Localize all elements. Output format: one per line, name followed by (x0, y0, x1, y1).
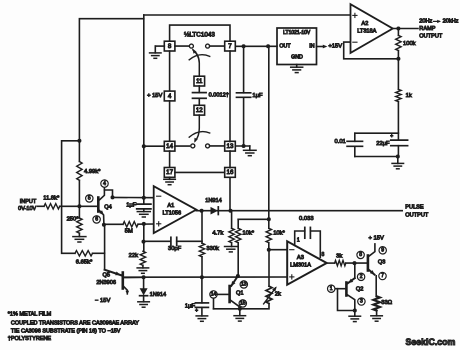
svg-text:17: 17 (166, 169, 173, 176)
svg-text:14: 14 (211, 292, 217, 298)
svg-text:8: 8 (168, 43, 172, 50)
svg-text:4: 4 (103, 181, 106, 187)
svg-text:3: 3 (360, 299, 363, 305)
svg-text:22μF: 22μF (376, 141, 390, 147)
svg-text:0V-10V: 0V-10V (18, 206, 36, 212)
svg-text:Q5: Q5 (103, 273, 110, 279)
svg-text:*1% METAL FILM: *1% METAL FILM (8, 311, 52, 317)
svg-text:OUTPUT: OUTPUT (405, 213, 429, 219)
svg-text:250*: 250* (67, 217, 80, 223)
svg-text:SeekIC.com: SeekIC.com (406, 337, 456, 347)
svg-text:14: 14 (166, 143, 173, 150)
svg-text:20kHz: 20kHz (443, 18, 459, 24)
svg-text:30pF: 30pF (168, 246, 182, 252)
svg-text:INPUT: INPUT (20, 199, 37, 205)
svg-text:Q1: Q1 (236, 290, 243, 296)
svg-text:LM301A: LM301A (290, 263, 311, 269)
svg-text:5: 5 (88, 196, 91, 202)
svg-text:9: 9 (381, 248, 384, 254)
svg-text:+ 15V: + 15V (369, 236, 384, 242)
svg-text:+15V: +15V (328, 44, 342, 50)
svg-text:330k: 330k (206, 246, 219, 252)
svg-text:1μF: 1μF (252, 93, 263, 99)
svg-text:RAMP: RAMP (419, 26, 435, 32)
svg-text:2: 2 (360, 274, 363, 280)
svg-text:PULSE: PULSE (405, 205, 424, 211)
svg-text:0.01: 0.01 (335, 139, 346, 145)
svg-text:7: 7 (381, 273, 384, 279)
svg-text:5M: 5M (125, 229, 133, 235)
svg-text:6.65k*: 6.65k* (76, 259, 93, 265)
svg-text:TIE CA3096 SUBSTRATE (PIN 16): TIE CA3096 SUBSTRATE (PIN 16) TO −15V (11, 329, 121, 335)
svg-text:1: 1 (330, 286, 333, 292)
svg-text:GND: GND (291, 55, 303, 61)
svg-text:LT318A: LT318A (357, 29, 376, 35)
svg-text:4: 4 (168, 93, 172, 100)
svg-text:A1: A1 (167, 203, 174, 209)
svg-text:1N914: 1N914 (205, 198, 221, 204)
svg-text:1N914: 1N914 (150, 292, 166, 298)
svg-text:Q3: Q3 (378, 259, 385, 265)
svg-text:100k: 100k (403, 41, 416, 47)
svg-text:OUT: OUT (279, 43, 291, 49)
svg-text:10k*: 10k* (273, 231, 285, 237)
svg-text:20Hz: 20Hz (419, 18, 432, 24)
svg-text:0.033: 0.033 (299, 216, 314, 222)
svg-text:1: 1 (297, 237, 300, 243)
svg-text:10k*: 10k* (242, 231, 254, 237)
svg-text:LT1056: LT1056 (163, 211, 182, 217)
svg-text:13: 13 (227, 143, 234, 150)
svg-text:2k: 2k (275, 292, 281, 298)
svg-text:½LTC1043: ½LTC1043 (184, 31, 215, 39)
svg-text:− 15V: − 15V (95, 298, 110, 304)
svg-text:A3: A3 (297, 255, 304, 261)
svg-text:+: + (195, 308, 198, 314)
svg-text:11.8k*: 11.8k* (43, 196, 60, 202)
svg-text:OUTPUT: OUTPUT (419, 34, 443, 40)
svg-text:15: 15 (240, 301, 246, 307)
svg-text:22k: 22k (129, 253, 138, 259)
svg-text:1k: 1k (406, 93, 412, 99)
svg-text:13: 13 (241, 282, 247, 288)
svg-text:33Ω: 33Ω (381, 300, 392, 306)
svg-text:Q2: Q2 (356, 286, 363, 292)
svg-text:2N3906: 2N3906 (96, 280, 116, 286)
svg-text:LT1021-10V: LT1021-10V (283, 30, 311, 36)
svg-text:IN: IN (309, 44, 314, 50)
svg-text:7: 7 (228, 43, 232, 50)
svg-text:4.7k: 4.7k (212, 231, 223, 237)
svg-text:Q4: Q4 (104, 204, 111, 210)
svg-text:8: 8 (359, 252, 362, 258)
svg-text:3k: 3k (336, 253, 342, 259)
svg-text:16: 16 (227, 169, 234, 176)
svg-text:6: 6 (95, 217, 98, 223)
svg-text:11: 11 (196, 78, 203, 85)
svg-text:A2: A2 (361, 21, 368, 27)
svg-text:0.0012†: 0.0012† (209, 92, 229, 98)
svg-text:4.99k*: 4.99k* (84, 169, 101, 175)
svg-text:COUPLED TRANSISTORS ARE CA3096: COUPLED TRANSISTORS ARE CA3096AE ARRAY (11, 321, 139, 327)
svg-text:1μF: 1μF (185, 304, 196, 310)
svg-text:8: 8 (322, 252, 325, 258)
svg-text:†POLYSTYRENE: †POLYSTYRENE (8, 336, 52, 342)
svg-text:12: 12 (196, 107, 203, 114)
svg-text:1μF: 1μF (126, 202, 137, 208)
svg-text:+: + (390, 133, 393, 139)
svg-text:+ 15V: + 15V (147, 93, 162, 99)
